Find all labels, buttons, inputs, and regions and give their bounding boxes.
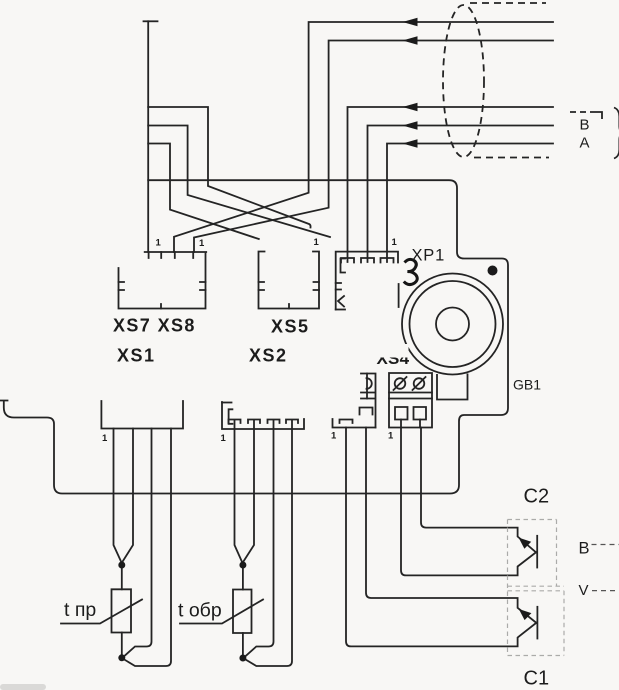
svg-text:1: 1	[388, 431, 394, 442]
svg-text:XS7 XS8: XS7 XS8	[113, 316, 196, 336]
svg-text:В: В	[579, 540, 590, 558]
svg-text:1: 1	[156, 238, 162, 249]
svg-text:1: 1	[199, 238, 205, 249]
svg-text:XP1: XP1	[412, 247, 446, 265]
svg-text:XS2: XS2	[249, 346, 288, 366]
svg-text:t обр: t обр	[178, 600, 222, 622]
svg-text:А: А	[580, 135, 590, 152]
svg-text:GB1: GB1	[513, 377, 541, 393]
svg-text:t пр: t пр	[64, 599, 96, 621]
svg-text:V: V	[579, 582, 589, 599]
svg-text:1: 1	[314, 237, 320, 248]
svg-text:1: 1	[102, 433, 108, 444]
svg-text:1: 1	[221, 433, 227, 444]
svg-text:XS5: XS5	[271, 317, 310, 337]
svg-text:1: 1	[331, 431, 337, 442]
svg-text:C1: C1	[524, 668, 550, 690]
svg-text:1: 1	[392, 237, 398, 248]
svg-text:C2: C2	[524, 486, 550, 508]
svg-text:XS1: XS1	[117, 346, 156, 366]
svg-text:В: В	[580, 117, 590, 134]
